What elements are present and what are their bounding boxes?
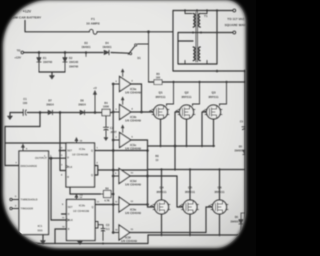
junction gate q1 <box>140 111 143 114</box>
node IC1 V+ pin arrow <box>21 144 24 151</box>
wire IC3d out / Q5 gate <box>130 176 184 207</box>
junctions center tap <box>192 31 218 33</box>
junctions source rail <box>159 145 214 147</box>
wire rail 71 <box>173 70 245 72</box>
wire IC3b out / Q1 gate <box>131 111 154 113</box>
wire IC2a Qbar bracket <box>95 166 148 176</box>
wire Q2 gate <box>175 112 180 170</box>
wire Q4 source <box>161 214 163 235</box>
wire Q5 source <box>189 214 191 235</box>
wire Q3 source <box>213 119 215 146</box>
wire Q2 drain <box>193 82 200 106</box>
wire IC3c out <box>131 140 148 146</box>
ground IC1 <box>41 241 46 245</box>
switch S1 <box>128 32 148 82</box>
wire IC2b D stub <box>62 213 67 215</box>
wire source rail upper <box>148 145 215 147</box>
wire Q2 source <box>186 119 188 146</box>
transistor Q3 <box>205 91 222 120</box>
wire battery feed <box>25 21 89 32</box>
gate squiggle Q3 <box>203 111 205 112</box>
wire Q5 drain <box>189 170 191 201</box>
wire q bus riser <box>147 170 149 205</box>
fuse F1 <box>86 17 99 34</box>
resistor R5 on rail <box>154 73 162 84</box>
gate squiggle Q5 <box>180 206 182 208</box>
wire IC3f out / Q6 gate <box>130 207 213 233</box>
ground clamp <box>50 76 55 80</box>
wire transformer right vertical <box>216 11 218 65</box>
junction riser <box>146 203 149 206</box>
wire IC2a bottom pin to R6 <box>70 187 101 194</box>
diode D1 clamp <box>37 53 53 73</box>
wire clamp line <box>24 52 130 55</box>
black icon background <box>0 0 256 256</box>
wire IC3a out <box>131 84 142 112</box>
inverter IC3e <box>112 197 141 215</box>
gate squiggle Q1 <box>150 111 152 112</box>
wire rail link <box>147 146 149 170</box>
wire clock bus vertical <box>51 158 67 220</box>
wire Q6 source <box>219 214 221 235</box>
junction D2 <box>64 51 67 54</box>
IC1 555 <box>19 151 49 235</box>
junctions ground rail <box>42 242 104 244</box>
wire bottom rail <box>148 234 245 236</box>
junction d out <box>146 175 149 178</box>
resistor R8 label <box>155 155 159 162</box>
junctions bottom rail <box>160 234 246 236</box>
transistor Q1 <box>152 91 169 120</box>
ground V+ rail left <box>9 113 11 116</box>
flip-flop IC2a <box>66 143 95 187</box>
pin threshold <box>10 198 19 200</box>
flip-flop IC2b <box>67 200 96 241</box>
wire transformer top / output top <box>173 10 232 12</box>
wire IC2a Q to gate column <box>95 150 148 152</box>
inverter IC3a <box>112 69 141 95</box>
junction q2 gate <box>174 145 177 148</box>
ground IC2b <box>78 241 83 245</box>
junction D1 <box>38 51 41 54</box>
pin number specks <box>15 81 134 232</box>
resistor R4 <box>102 102 110 116</box>
node +V arrow <box>93 86 97 114</box>
node IC2a V+ pin arrow <box>75 138 78 144</box>
diode D4 series <box>102 42 112 55</box>
wire IC3e out / Q4 gate <box>130 205 155 208</box>
wire transformer center tap <box>178 33 232 42</box>
wire ground rail <box>26 243 148 245</box>
wire IC2b Q to bus <box>95 204 113 206</box>
diode D2 clamp <box>63 53 79 73</box>
diode D8 on rail <box>78 100 86 115</box>
paper grain <box>0 0 256 256</box>
wire transformer bottom <box>178 41 217 64</box>
capacitor C1 <box>23 97 28 116</box>
junctions transformer top <box>184 9 218 11</box>
junctions rail 82 <box>172 81 246 83</box>
wire Q1 source <box>160 119 162 146</box>
transformer T1 <box>185 11 208 65</box>
wire primary left vertical <box>172 11 174 72</box>
gate squiggle Q4 <box>150 205 152 207</box>
inverter IC3d <box>112 169 141 187</box>
wire V+ rail <box>10 112 114 114</box>
pin ground IC2b <box>79 241 81 242</box>
capacitor C3 <box>95 222 110 241</box>
wire discharge loop <box>5 113 40 166</box>
transistor Q5 <box>182 186 199 215</box>
node output terminal bottom <box>233 31 236 34</box>
wire inverter input bus <box>112 84 114 233</box>
diode D7 on rail <box>46 100 54 115</box>
transistor Q4 <box>153 186 170 215</box>
gate squiggle Q6 <box>208 205 210 207</box>
wire Q6 drain <box>219 170 221 201</box>
wire rail 82 <box>149 81 246 83</box>
wire Q3 gate <box>202 112 207 146</box>
junction qbar bus <box>112 169 115 172</box>
wire Q1 drain <box>167 82 174 106</box>
junction 40 <box>39 111 42 114</box>
junction S1 top <box>147 30 150 33</box>
pin trigger <box>10 207 19 209</box>
junction output net <box>50 157 53 160</box>
diode D5 on bus <box>234 146 247 155</box>
wire set stub IC2a <box>60 113 66 171</box>
junction Q bus <box>112 149 115 152</box>
paper page <box>3 0 246 248</box>
wire mid rail <box>148 169 246 171</box>
wire right bus <box>244 71 246 235</box>
inverter IC3f <box>112 225 137 243</box>
node IC2b V+ pin arrow <box>75 194 83 200</box>
transistor Q6 <box>211 186 228 215</box>
node TO S1 terminal <box>14 49 23 60</box>
capacitor C2 <box>104 116 118 141</box>
diode D6 <box>230 213 245 235</box>
inverter IC3b <box>112 97 141 123</box>
wire clamp bottom <box>39 72 65 75</box>
wire Q3 drain <box>220 82 227 106</box>
inverter IC3c <box>112 125 141 151</box>
junction tap <box>85 51 88 54</box>
wire Q4 drain <box>161 170 163 201</box>
wire bottom rail to ground rail <box>147 235 149 244</box>
wire reset chain <box>55 229 67 244</box>
wire IC1 output to IC2a D <box>49 157 67 159</box>
capacitor C4 on bus <box>240 121 248 133</box>
junction rail71 right <box>244 70 247 73</box>
node +12V battery input label <box>9 10 42 20</box>
junctions mid rail <box>160 168 246 170</box>
transistor Q2 <box>178 91 195 120</box>
node output terminal top <box>233 9 236 12</box>
diode D3 label <box>81 42 91 49</box>
junction 58 <box>59 111 62 114</box>
gate squiggle Q2 <box>176 111 178 112</box>
wire fuse to switch node <box>97 31 173 33</box>
wire vdd branch to IC2a <box>5 142 74 144</box>
node output label <box>225 17 248 27</box>
resistor R6 <box>101 187 115 202</box>
pin ground IC1 <box>42 235 44 241</box>
